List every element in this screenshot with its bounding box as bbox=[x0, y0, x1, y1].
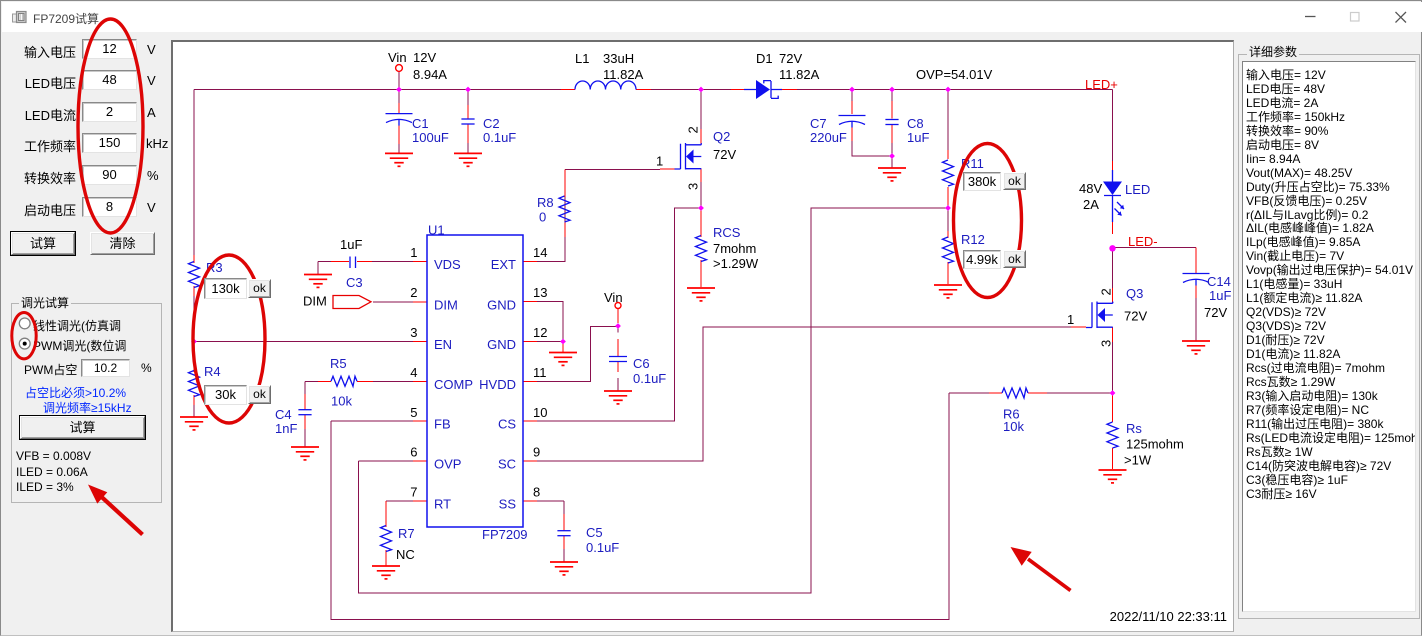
LED D2 bbox=[1103, 170, 1124, 222]
transistor Q2 bbox=[675, 143, 702, 170]
annotation ellipse R11 R12 bbox=[954, 144, 1022, 298]
node C7 C8 junction bbox=[889, 153, 895, 159]
wire U1 left pin stubs red bbox=[413, 262, 427, 501]
wire top rail Vin bbox=[194, 89, 1113, 91]
node EN junction bbox=[191, 339, 197, 345]
wire R11 bottom / R12 top node bbox=[947, 205, 949, 231]
ground C6 bbox=[604, 391, 632, 404]
ground C3 bbox=[304, 275, 332, 288]
wire EN net bbox=[194, 341, 413, 343]
capacitor C8 bbox=[885, 120, 898, 125]
annotation ellipse radios bbox=[12, 313, 36, 359]
resistor R3 bbox=[189, 262, 200, 288]
resistor Rs bbox=[1107, 422, 1118, 448]
capacitor C2 bbox=[461, 119, 474, 124]
wire R12 leads red bbox=[947, 231, 949, 284]
right parameters panel bbox=[1238, 54, 1420, 619]
annotation ellipse R3 R4 bbox=[193, 255, 265, 423]
node R11 R12 junction bbox=[945, 205, 951, 211]
wire Vin stub red bbox=[398, 103, 400, 144]
left input rows bbox=[1, 42, 76, 61]
pin numbers U1 right bbox=[533, 245, 547, 499]
port DIM arrow bbox=[333, 296, 371, 309]
wire R4 leads red bbox=[193, 365, 195, 405]
schematic canvas bbox=[171, 40, 1235, 632]
wire SS to C5 bbox=[537, 501, 564, 514]
wire L1 leads red bbox=[561, 89, 651, 91]
wire R6 leads red bbox=[989, 392, 1047, 394]
wire R5 C4 leads red bbox=[305, 381, 373, 429]
ground C5 bbox=[550, 562, 578, 575]
resistor R4 bbox=[189, 371, 200, 397]
wire Q3 source to Rs node bbox=[1112, 342, 1114, 393]
wire HVDD to Vin node and C6 bbox=[537, 326, 618, 391]
resistor R5 bbox=[331, 376, 357, 386]
wire C5 stubs red bbox=[563, 514, 565, 549]
pin numbers U1 left bbox=[410, 245, 417, 499]
ground C1 bbox=[385, 153, 413, 166]
capacitor C14 bbox=[1183, 274, 1210, 286]
capacitor C1 bbox=[386, 114, 413, 126]
capacitor C5 bbox=[557, 531, 570, 536]
wire Q2 drain source red bbox=[660, 129, 701, 182]
ground Rs bbox=[1099, 470, 1127, 483]
wire C7 stub red bbox=[851, 101, 853, 141]
node Vin aux bbox=[615, 303, 621, 309]
wire R8 to EXT and Q2 gate bbox=[537, 170, 660, 262]
wire Q3 leads red bbox=[1071, 288, 1113, 342]
wire Rs leads red bbox=[1112, 393, 1114, 469]
diode D1 schottky bbox=[744, 80, 782, 99]
ground R4 bbox=[180, 417, 208, 430]
wire U1 right pin stubs red bbox=[523, 262, 537, 501]
ground RCS bbox=[687, 288, 715, 301]
wire R11 top from rail bbox=[947, 90, 949, 151]
node rail junction C8 bbox=[889, 87, 895, 93]
annotation arrow middle bbox=[1011, 547, 1071, 591]
node Vin main bbox=[396, 65, 403, 72]
wire FB loop bottom bbox=[331, 393, 949, 620]
node rail junction C7 bbox=[849, 87, 855, 93]
value boxes over schematic bbox=[204, 278, 247, 299]
annotation arrow left bbox=[88, 485, 143, 535]
transistor Q3 bbox=[1086, 302, 1113, 329]
resistor RCS bbox=[696, 236, 707, 262]
wire D1 leads red bbox=[731, 89, 797, 91]
ground C7 C8 bbox=[878, 168, 906, 181]
wire C14 leads red bbox=[1195, 248, 1197, 299]
wire C3 leads red bbox=[331, 261, 372, 263]
resistor R8 bbox=[559, 196, 570, 222]
resistor R12 bbox=[943, 237, 954, 263]
capacitor C6 bbox=[609, 357, 627, 362]
wire R8 leads red bbox=[564, 170, 566, 238]
wire R11 leads red bbox=[947, 150, 949, 205]
capacitor C3 bbox=[350, 257, 356, 269]
wire Vin2 C6 stubs red bbox=[617, 309, 619, 372]
node LED- junction bbox=[1109, 245, 1115, 251]
ground C4 bbox=[291, 447, 319, 460]
inductor L1 bbox=[575, 81, 636, 90]
node rail junction C2 bbox=[465, 87, 471, 93]
wire OVP loop bbox=[359, 208, 949, 593]
ground C14 bbox=[1182, 341, 1210, 354]
ground C2 bbox=[454, 153, 482, 166]
wire Q3 drain bbox=[1112, 248, 1114, 289]
resistor R11 bbox=[943, 160, 954, 186]
wire LED output drop bbox=[1112, 90, 1114, 162]
ground R7 bbox=[372, 566, 400, 579]
capacitor C4 bbox=[298, 410, 311, 415]
node rail junction Vin bbox=[396, 87, 402, 93]
wire C2 stubs red bbox=[467, 105, 469, 143]
wire C8 stubs red bbox=[891, 101, 893, 143]
wire R6 connections bbox=[949, 392, 1113, 394]
wire Q2 source to RCS node bbox=[700, 182, 702, 208]
node GND junction bbox=[560, 339, 566, 345]
node Q2 source junction bbox=[698, 205, 704, 211]
ground R12 bbox=[934, 285, 962, 298]
wire input divider left column bbox=[194, 72, 468, 418]
wire GND12 stem red bbox=[562, 342, 564, 353]
IC U1 FP7209 bbox=[427, 223, 528, 543]
annotation arrow right bbox=[1292, 525, 1312, 593]
resistor R7 bbox=[381, 526, 392, 552]
wire C7 bottom to C8 bottom bbox=[852, 90, 892, 169]
title bar bbox=[2, 2, 1422, 32]
wire CS to Q2 source node bbox=[537, 208, 701, 421]
wire RT to R7 bbox=[305, 262, 564, 563]
node rail junction R11 bbox=[945, 87, 951, 93]
wire RCS leads red bbox=[700, 208, 702, 287]
wire LED- to C14 bbox=[1113, 248, 1197, 342]
dimming group box bbox=[11, 303, 162, 503]
wire LED anode cathode red bbox=[1112, 161, 1114, 234]
ground GND pins bbox=[549, 353, 577, 366]
wire R7 leads red bbox=[385, 501, 387, 566]
annotation ellipse inputs bbox=[78, 19, 143, 233]
node HVDD junction bbox=[615, 323, 621, 329]
node rail junction Q2 bbox=[698, 87, 704, 93]
wire SC to Q3 gate bbox=[537, 327, 1078, 461]
wire Q2 drain from rail bbox=[700, 90, 702, 130]
resistor R6 bbox=[1002, 388, 1028, 398]
capacitor C7 bbox=[839, 116, 866, 128]
node Rs junction bbox=[1110, 390, 1116, 396]
wire R3 leads red bbox=[193, 255, 195, 296]
wire GND pins to ground bbox=[537, 302, 563, 342]
